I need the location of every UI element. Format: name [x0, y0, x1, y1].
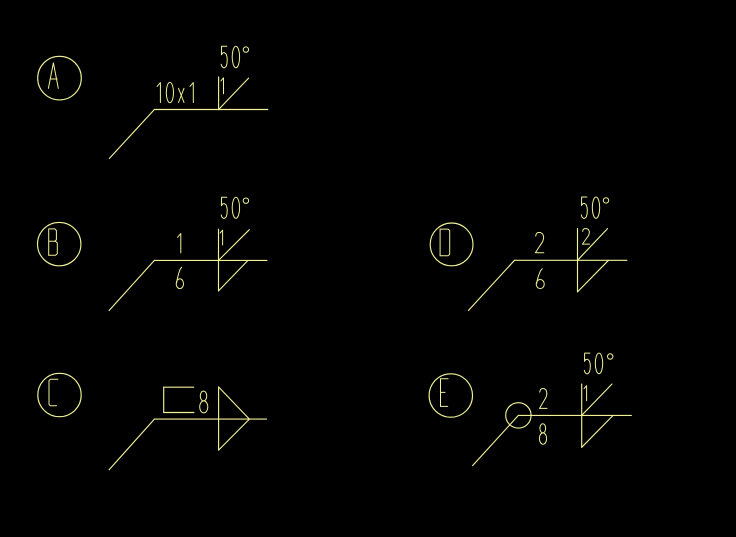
size text 8 at symbol C — [200, 391, 206, 401]
double fillet triangle C vertical — [218, 387, 220, 450]
balloon circle D — [430, 223, 473, 266]
bevel symbol E vertical — [581, 384, 583, 447]
angle text 50 deg D — [581, 197, 587, 218]
leader line B — [109, 260, 154, 310]
depth text 1 at bevel A — [221, 78, 224, 94]
bevel symbol B diagonal — [219, 230, 250, 261]
text 2 above reference line D — [535, 233, 543, 253]
angle text 50 deg E — [584, 353, 590, 374]
double fillet triangle C lower diagonal — [219, 419, 250, 450]
size text 10x1 on reference line A — [157, 83, 160, 103]
balloon circle B — [38, 222, 81, 265]
leader line C — [109, 419, 154, 470]
bevel symbol A vertical — [218, 77, 220, 110]
fillet symbol B hypotenuse — [219, 260, 249, 291]
fillet symbol D hypotenuse — [578, 260, 609, 292]
weld-all-around circle E — [506, 403, 531, 428]
text 8 below reference line E — [540, 424, 546, 433]
label letter B — [49, 229, 57, 255]
text 2 above reference line E — [540, 389, 548, 409]
bevel symbol D vertical — [577, 229, 579, 292]
angle text 50 deg B — [221, 197, 227, 218]
slot symbol C open rectangle top — [164, 386, 194, 388]
bevel symbol A diagonal — [219, 78, 249, 109]
text 6 below reference line B — [177, 267, 182, 283]
text 6 below reference line D — [537, 269, 543, 284]
depth text 2 at bevel D — [582, 229, 589, 245]
slot symbol C open rectangle bottom — [164, 412, 194, 414]
slot symbol C open rectangle left — [163, 387, 165, 412]
reference line C — [154, 418, 266, 420]
reference line E — [518, 414, 631, 416]
bevel symbol D diagonal — [578, 229, 608, 261]
balloon circle A — [38, 56, 82, 100]
fillet symbol E hypotenuse — [582, 415, 613, 447]
reference line D — [515, 259, 627, 261]
balloon circle E — [429, 374, 472, 417]
double fillet triangle C upper diagonal — [219, 387, 250, 419]
leader line A — [109, 110, 154, 159]
bevel symbol B vertical — [218, 229, 220, 291]
angle text 50 deg A — [221, 46, 227, 67]
label letter D — [439, 229, 441, 256]
leader line D — [468, 260, 514, 310]
depth text 1 at bevel E — [584, 386, 587, 401]
label letter C — [49, 379, 58, 406]
leader line E — [473, 415, 519, 465]
balloon circle C — [38, 373, 81, 416]
reference line B — [154, 259, 267, 261]
bevel symbol E diagonal — [582, 384, 612, 415]
label letter A — [48, 63, 58, 89]
label letter E — [440, 379, 442, 407]
reference line A — [154, 109, 267, 111]
depth text 1 at bevel B — [220, 230, 222, 245]
text 1 above reference line B — [178, 234, 181, 253]
